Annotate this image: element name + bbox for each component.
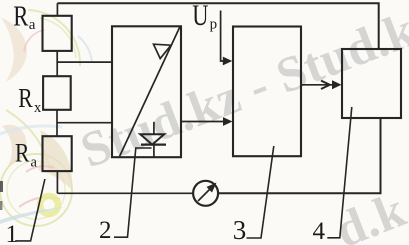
resistor Ra (top) [43,16,72,51]
diode D lower stem [153,145,155,158]
wire junction Ra/Rx to block 2 [57,61,112,63]
wire junction Rx/Ra to block 2 [57,122,112,124]
svg-text:R: R [18,84,33,114]
block 3 [233,27,301,157]
svg-text:a: a [31,154,38,170]
wire Ra bottom to Rx top [56,51,58,76]
svg-text:R: R [15,140,29,168]
svg-text:3: 3 [233,215,247,245]
leader line 3 [247,146,274,238]
wire Rx bottom to lower Ra top [56,110,58,136]
diagonal ramp line in block 2 [120,27,180,157]
arrowhead 2 (filled) into block 4 [332,80,342,89]
arrowhead wire block2 into block 3 [223,117,233,126]
wire from top rail down to resistor Ra top [56,3,58,16]
wire bottom rail right segment to block 4 [218,118,381,193]
wire Up input [221,11,224,62]
wire bottom rail left segment [57,192,193,194]
wire lower Ra bottom to bottom rail [56,171,58,193]
diode D triangle [140,134,164,144]
indicator needle [198,188,212,202]
svg-text:x: x [34,100,42,116]
leader line 1 [15,179,45,241]
diode D cathode bar [141,144,166,146]
leader line 2 [114,148,152,237]
svg-text:2: 2 [99,217,112,244]
diode D stem [153,122,155,135]
resistor Ra (lower) [43,136,72,171]
block 4 [342,49,401,118]
arrowhead Up into block 3 [223,57,232,66]
indicator needle arrowhead [207,183,217,193]
wire block 3 to block 4 [301,84,333,86]
wire top rail from left branch to block 4 [57,3,378,49]
svg-text:U: U [192,0,208,32]
svg-text:a: a [29,17,36,33]
svg-text:1: 1 [6,221,19,245]
resistor Rx [43,76,71,110]
small triangle on ramp [154,44,172,58]
leader line 4 [327,107,352,238]
svg-text:p: p [210,16,218,32]
svg-text:4: 4 [313,218,326,245]
wire block 2 to block 3 [181,121,226,123]
chevron arrowhead 1 on wire 3-4 [321,81,330,89]
svg-text:R: R [13,0,29,32]
block 2 (sawtooth generator) [112,26,181,157]
indicator circle [193,181,218,206]
